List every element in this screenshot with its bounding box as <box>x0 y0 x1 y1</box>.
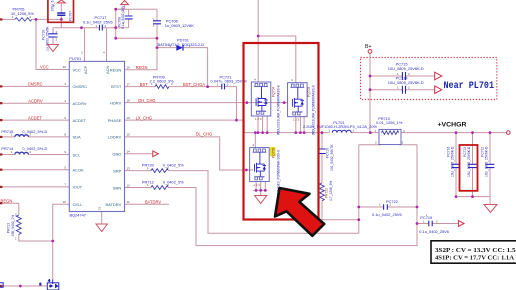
label resistor PR714 <box>1 146 47 154</box>
connector circle +VCHGR <box>507 131 511 135</box>
svg-text:0_0402_5%-D: 0_0402_5%-D <box>22 129 47 134</box>
wire IC PAD ground stub <box>101 212 103 225</box>
wire BATDRV stub <box>125 203 170 205</box>
svg-text:10K_0402_1%: 10K_0402_1% <box>11 215 15 237</box>
svg-text:+VCHGR: +VCHGR <box>438 122 468 129</box>
resistor PR714 coil <box>15 152 29 154</box>
svg-text:1 2 3: 1 2 3 <box>253 183 260 187</box>
label sense resistor PR710 <box>375 116 406 145</box>
off-page pin squares at left edge <box>0 18 2 20</box>
svg-text:BQ24747: BQ24747 <box>70 213 86 218</box>
wire PC706 stems <box>156 9 158 38</box>
annotation dashed red box Near PL701 <box>361 58 497 100</box>
svg-text:10U_0805_25V6K-D: 10U_0805_25V6K-D <box>451 146 455 177</box>
wire top rail to PC706 <box>116 8 157 10</box>
net stub triangle PC715 <box>435 72 442 80</box>
resistor PR713 vertical zigzag <box>16 215 21 234</box>
wire PC707 stem bottom <box>60 15 62 28</box>
label capacitor PC715 <box>388 61 424 75</box>
resistor PR715 coil <box>15 135 29 137</box>
label capacitor PC718 <box>42 26 58 51</box>
svg-text:1u_0603_12V6K: 1u_0603_12V6K <box>165 23 194 28</box>
svg-text:B+: B+ <box>365 44 372 50</box>
wire ACDET row <box>0 119 69 121</box>
label resistor PR709 <box>150 75 175 87</box>
wire PR710 sense taps <box>359 144 417 146</box>
svg-text:REGN: REGN <box>136 65 148 70</box>
svg-text:18: 18 <box>127 98 131 102</box>
svg-text:REGN: REGN <box>110 67 122 72</box>
svg-text:DL_CHG: DL_CHG <box>196 131 213 136</box>
capacitor PC715 plates <box>402 72 405 80</box>
power triangle PC707 <box>57 0 65 3</box>
wire ACN stub <box>106 28 108 62</box>
ground right cap bank <box>484 205 497 213</box>
wire right cap gnd bus <box>456 197 490 205</box>
wire B+ drop <box>369 53 371 132</box>
svg-text:BST_CHGA: BST_CHGA <box>183 82 205 87</box>
ground under IC PAD <box>96 224 107 232</box>
annotation red cursor arrow <box>275 188 324 236</box>
svg-text:0.01_1206_1%: 0.01_1206_1% <box>376 120 403 125</box>
label resistor PR705 <box>11 6 34 18</box>
svg-text:SDA: SDA <box>73 135 82 140</box>
capacitor PC714 plates <box>402 86 405 94</box>
svg-text:BATDRV: BATDRV <box>105 202 121 207</box>
svg-text:11: 11 <box>127 200 130 204</box>
label capacitor PC708 <box>118 5 126 29</box>
svg-text:2.2UH_TMF1040-H-2R2M-P3_14.2A_: 2.2UH_TMF1040-H-2R2M-P3_14.2A_20% <box>303 124 377 129</box>
svg-text:Near PL701: Near PL701 <box>444 81 495 92</box>
transistor PQ704 high-side MOSFET left <box>251 78 280 136</box>
svg-text:1u_0603_25V6K: 1u_0603_25V6K <box>45 26 49 51</box>
capacitor PC721 plates <box>222 84 225 90</box>
svg-text:PHASE: PHASE <box>108 118 122 123</box>
svg-text:17: 17 <box>127 82 131 86</box>
resistor PR712 zigzag <box>151 186 169 190</box>
svg-text:14: 14 <box>127 150 131 154</box>
svg-text:BAT54HT1G_SOD323-2-D: BAT54HT1G_SOD323-2-D <box>158 42 205 47</box>
capacitor PC713 plates <box>468 164 477 167</box>
label capacitor PC721 <box>211 75 248 87</box>
svg-text:21: 21 <box>97 206 101 210</box>
svg-text:0.1u_0402_25V6: 0.1u_0402_25V6 <box>372 212 402 217</box>
svg-text:12: 12 <box>127 183 131 187</box>
svg-text:20: 20 <box>63 65 67 69</box>
svg-text:10: 10 <box>63 200 67 204</box>
label capacitor PC713 <box>463 146 471 177</box>
wire PC722 row <box>359 206 417 208</box>
power triangle REGN <box>121 0 129 4</box>
svg-text:0.1u_0402_25V6: 0.1u_0402_25V6 <box>83 20 113 25</box>
svg-text:4S1P: CV = 17.7V CC: 1.1A: 4S1P: CV = 17.7V CC: 1.1A <box>435 255 514 262</box>
label capacitor PC722 <box>372 199 402 217</box>
svg-text:0.1u_0402_25V6: 0.1u_0402_25V6 <box>419 229 449 234</box>
net stub triangle GND pin <box>153 151 159 157</box>
wire SRN row <box>125 145 418 246</box>
capacitor PC716 plates <box>452 164 461 167</box>
wire right cap bank stems <box>456 133 490 197</box>
svg-text:10U_0805_25V6K-D: 10U_0805_25V6K-D <box>467 146 471 177</box>
wire PC714 row <box>370 89 435 91</box>
label resistor PR715 <box>1 129 47 137</box>
svg-text:10U_0805_25V6K-D: 10U_0805_25V6K-D <box>388 66 424 71</box>
svg-text:ACP: ACP <box>83 65 88 74</box>
wire box1 source stubs <box>258 116 267 133</box>
wire LX to PR710 <box>351 132 379 134</box>
wire snubber chain <box>321 133 323 183</box>
svg-text:PC722: PC722 <box>386 199 398 204</box>
label resistor PR713 <box>7 213 18 241</box>
label capacitor PC719 <box>419 214 449 234</box>
ground under PC718 <box>48 45 59 52</box>
wire box3 source stubs and gnd bus <box>253 182 268 196</box>
svg-text:15: 15 <box>127 133 131 137</box>
svg-text:WDU3313URA_POWERPAK8S-8: WDU3313URA_POWERPAK8S-8 <box>276 85 280 135</box>
wire CELL row <box>53 204 70 279</box>
svg-text:CMSRC: CMSRC <box>28 82 43 87</box>
svg-text:LX_CHG: LX_CHG <box>136 115 152 120</box>
label capacitor PC717 <box>83 15 113 28</box>
svg-text:CMSRC: CMSRC <box>73 84 88 89</box>
wire LODRV DL_CHG <box>125 137 254 170</box>
svg-text:IOUT: IOUT <box>73 185 83 190</box>
svg-text:0.1u_0402_25V: 0.1u_0402_25V <box>121 5 125 29</box>
svg-text:19: 19 <box>127 116 131 120</box>
wire REGN bottom branch <box>0 203 53 241</box>
svg-text:10U_0805_25V6K-D: 10U_0805_25V6K-D <box>485 146 489 177</box>
label capacitor PC712 <box>481 146 489 177</box>
svg-text:DH_CHG: DH_CHG <box>138 98 155 103</box>
wire GND stub <box>125 153 153 155</box>
svg-text:BTST: BTST <box>111 84 122 89</box>
label capacitor PC710 <box>326 144 334 171</box>
svg-text:BATDRV: BATDRV <box>145 200 161 205</box>
svg-text:SRN: SRN <box>113 185 122 190</box>
SEC_WIRES_END <box>15 18 324 235</box>
svg-text:CELL: CELL <box>73 202 84 207</box>
wire REGN triangle stem <box>116 5 125 39</box>
wire PC715 row <box>370 75 435 77</box>
wire PR705 to PC707 node <box>32 18 61 20</box>
inductor PL701 coil <box>332 130 351 132</box>
svg-text:PC707: PC707 <box>69 11 73 21</box>
wire top drain feed <box>258 0 296 83</box>
wire LX bus <box>244 132 330 134</box>
resistor PR722 vertical zigzag <box>320 183 325 201</box>
label resistor PR722 <box>325 181 333 201</box>
svg-text:VCC: VCC <box>73 67 82 72</box>
junction dots <box>35 18 38 21</box>
svg-text:SRP: SRP <box>113 168 122 173</box>
capacitor PC708 plates <box>125 16 133 19</box>
wire SRP row <box>125 145 359 233</box>
svg-text:ACOK: ACOK <box>73 168 85 173</box>
svg-text:VCC: VCC <box>40 65 49 70</box>
net stub triangle PC719 <box>458 221 464 227</box>
wire ACOK row <box>0 169 69 171</box>
wire box3 drain stub <box>254 133 256 148</box>
label capacitor PC707 <box>51 0 73 22</box>
svg-text:3S2P : CV = 13.3V CC: 1.54: 3S2P : CV = 13.3V CC: 1.54 <box>435 247 516 254</box>
capacitor PC712 plates <box>486 164 495 167</box>
svg-text:1 2 3: 1 2 3 <box>255 117 262 121</box>
capacitor PC718 plates <box>48 34 57 37</box>
wire ACP-ACN rail <box>53 27 129 29</box>
svg-text:PU701: PU701 <box>69 56 81 61</box>
wire ACDRV row <box>0 102 69 104</box>
capacitor PC719 plates <box>429 221 432 227</box>
capacitor PC722 plates <box>384 204 388 210</box>
capacitor PC710 plates <box>318 149 325 154</box>
wire CMSRC row <box>0 85 69 87</box>
svg-text:REGN: REGN <box>1 198 13 203</box>
connector circle B+ <box>368 50 372 54</box>
svg-text:BST: BST <box>140 82 148 87</box>
label inductor PL701 <box>303 120 377 133</box>
capacitor PC717 plates <box>100 25 103 31</box>
yellow highlight on PQ705 ref <box>270 147 276 157</box>
wire PHASE row <box>125 120 245 133</box>
svg-text:HDRV: HDRV <box>110 100 122 105</box>
wire PC708 stubs <box>128 9 130 28</box>
wire SDA row <box>0 136 69 138</box>
svg-text:4.7_1206_5%: 4.7_1206_5% <box>329 181 333 201</box>
label capacitor PC714 <box>388 75 424 89</box>
wire box2 source stubs <box>296 116 304 133</box>
annotation red box around PC713 <box>460 145 478 191</box>
resistor PR720 zigzag <box>151 169 169 173</box>
capacitor PC706 plates <box>153 21 161 24</box>
svg-text:1 2 3: 1 2 3 <box>293 118 300 122</box>
svg-text:13: 13 <box>127 166 131 170</box>
svg-text:16: 16 <box>127 66 131 70</box>
capacitor PC707 plates <box>57 13 65 15</box>
wire IOUT row <box>0 186 69 188</box>
svg-text:0_0402_5%-D: 0_0402_5%-D <box>22 146 47 151</box>
annotation big red box around MOSFETs <box>244 43 319 220</box>
wire node to PC706 bottom <box>116 37 157 39</box>
wire PC719 row <box>417 223 458 225</box>
wire HDRV row to gates <box>125 102 289 104</box>
bottom-left MOSFET PQ706 partial <box>40 278 59 290</box>
wire REGN vertical <box>125 38 158 70</box>
ground box3 <box>255 196 267 204</box>
wire VCC branch <box>36 19 69 69</box>
svg-text:ACN: ACN <box>105 65 110 74</box>
wire VCHGR rail <box>401 132 507 134</box>
partial component at bottom-left edge <box>0 283 3 288</box>
svg-text:GND: GND <box>112 152 121 157</box>
svg-text:LODRV: LODRV <box>108 135 122 140</box>
label diode PD701 <box>158 38 205 48</box>
svg-text:ACDET: ACDET <box>28 115 42 120</box>
svg-text:ACDET: ACDET <box>73 118 87 123</box>
net stub triangle PC714 <box>435 86 442 94</box>
svg-text:ACDRV: ACDRV <box>28 98 43 103</box>
wire ACP stub <box>84 28 86 62</box>
wire bottom MOSFET input <box>0 285 47 287</box>
svg-text:101_0402_50V7K: 101_0402_50V7K <box>330 144 334 171</box>
info box 3S2P 4S1P <box>431 241 516 263</box>
wire PC718 stem <box>52 28 54 45</box>
label capacitor PC706 <box>153 17 194 27</box>
label resistor PR712 <box>142 180 184 188</box>
resistor PR705 zigzag <box>15 18 32 21</box>
transistor PQ705 low-side MOSFET <box>250 143 281 207</box>
svg-text:PQ704: PQ704 <box>272 87 276 97</box>
svg-text:10U_0805_25V6K-D: 10U_0805_25V6K-D <box>388 80 424 85</box>
wire PC707 stem top <box>60 3 62 13</box>
sense resistor PR710 box <box>379 129 401 144</box>
svg-text:ACDRV: ACDRV <box>73 101 87 106</box>
resistor PR709 zigzag <box>155 85 169 89</box>
diode PD701 <box>176 45 183 51</box>
annotation red box around PC707 <box>48 0 74 22</box>
wire diode branch <box>157 48 208 87</box>
transistor PQ703 high-side MOSFET right <box>288 78 316 135</box>
svg-text:SCL: SCL <box>73 152 82 157</box>
label capacitor PC716 <box>447 146 455 177</box>
wire SCL row <box>0 154 69 156</box>
op-amp charger IC PU701 <box>63 51 131 218</box>
wire PR705 input rail <box>2 18 15 20</box>
wire BTST row <box>125 87 237 121</box>
label resistor PR720 <box>142 163 184 171</box>
svg-text:PQ705: PQ705 <box>272 148 276 158</box>
